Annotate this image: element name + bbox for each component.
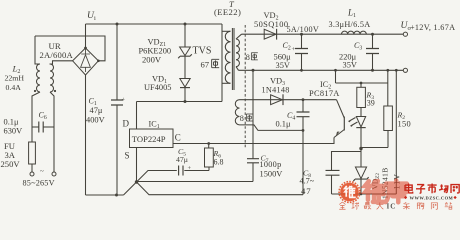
svg-text:8: 8 (246, 53, 250, 62)
svg-text:67: 67 (201, 59, 210, 69)
svg-text:3.3μH/6.5A: 3.3μH/6.5A (329, 20, 371, 29)
svg-text:47μ: 47μ (176, 155, 188, 164)
svg-text:22mH: 22mH (5, 74, 25, 83)
svg-text:0.1μ: 0.1μ (4, 117, 19, 126)
svg-text:2A/600A: 2A/600A (40, 50, 74, 60)
svg-text:+: + (188, 165, 192, 172)
svg-text:+: + (122, 97, 126, 104)
svg-text:+: + (292, 46, 296, 53)
svg-text:+12V, 1.67A: +12V, 1.67A (410, 23, 455, 32)
svg-text:UF4005: UF4005 (144, 83, 171, 92)
svg-text:1000p: 1000p (260, 160, 282, 169)
svg-text:(EE22): (EE22) (214, 7, 241, 17)
svg-text:~: ~ (40, 168, 44, 176)
svg-text:TVS: TVS (193, 46, 212, 57)
svg-text:150: 150 (398, 119, 411, 128)
svg-text:250V: 250V (1, 159, 21, 169)
svg-text:50SQ100: 50SQ100 (254, 20, 288, 29)
svg-text:85~265V: 85~265V (23, 179, 55, 188)
svg-text:5A/100V: 5A/100V (287, 25, 320, 34)
svg-text:WWW.DZSC.COM: WWW.DZSC.COM (410, 195, 454, 200)
svg-text:4.7~: 4.7~ (300, 176, 315, 185)
svg-text:6.8: 6.8 (214, 158, 224, 167)
svg-text:35V: 35V (276, 61, 290, 70)
svg-text:1N4148: 1N4148 (262, 85, 290, 94)
svg-text:39: 39 (367, 99, 375, 108)
svg-text:200V: 200V (142, 55, 162, 65)
svg-text:D: D (123, 119, 130, 129)
svg-text:IC: IC (387, 203, 397, 211)
svg-text:47: 47 (301, 186, 311, 196)
svg-text:1500V: 1500V (260, 170, 283, 179)
svg-text:PC817A: PC817A (309, 89, 340, 98)
svg-text:8: 8 (240, 114, 244, 123)
svg-text:C: C (175, 132, 181, 142)
svg-text:47μ: 47μ (90, 106, 103, 115)
svg-text:400V: 400V (86, 116, 105, 125)
svg-text:0.1μ: 0.1μ (276, 120, 291, 129)
svg-text:S: S (125, 151, 130, 161)
svg-text:TOP224P: TOP224P (132, 134, 166, 144)
svg-text:0.4A: 0.4A (6, 83, 22, 92)
svg-text:35V: 35V (343, 60, 357, 69)
svg-text:630V: 630V (4, 127, 23, 136)
